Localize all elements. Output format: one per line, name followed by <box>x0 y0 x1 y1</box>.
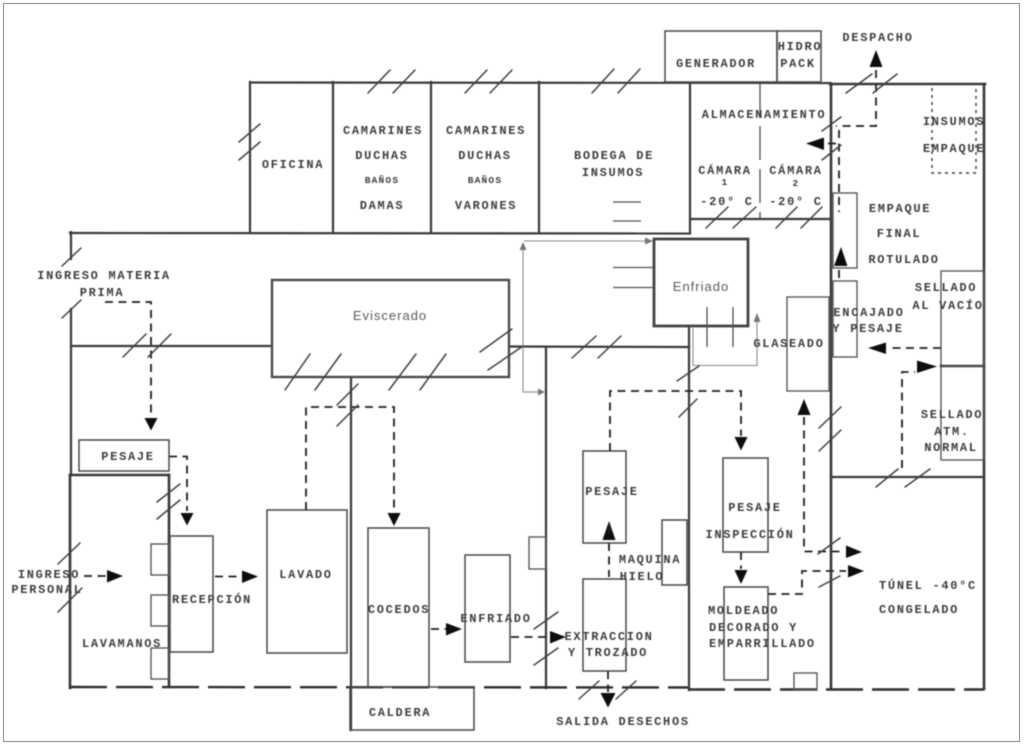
arrow left into CAMARA 2 <box>806 138 824 151</box>
svg-text:-20° C: -20° C <box>700 195 753 209</box>
wall DAMAS/VARONES <box>430 82 432 233</box>
box RECEPCION <box>170 536 213 652</box>
svg-text:INSPECCIÓN: INSPECCIÓN <box>705 527 794 542</box>
flow MAQUINA HIELO to PESAJE 2 dashed <box>608 543 610 577</box>
svg-text:SELLADO: SELLADO <box>921 408 983 422</box>
box INSUMOS EMPAQUE (dotted) <box>932 84 976 173</box>
door marks wall x831 glaseado <box>819 407 841 428</box>
box EXTRACCION Y TROZADO <box>583 579 626 671</box>
svg-text:VARONES: VARONES <box>455 199 517 213</box>
wall VARONES/BODEGA <box>538 82 540 233</box>
flow PESAJE 2 to PESAJE INSPECCION dashed <box>610 391 741 451</box>
arrow right into ENFRIADO <box>446 623 462 636</box>
flow COCEDOS to ENFRIADO dashed <box>431 628 446 630</box>
svg-text:MOLDEADO: MOLDEADO <box>708 604 779 618</box>
svg-text:HIELO: HIELO <box>620 570 665 584</box>
wall vertical x546 <box>545 347 547 688</box>
flow almacen down from despacho dashed <box>836 84 876 126</box>
arrow down salida desechos <box>601 693 616 708</box>
arrow up inside PESAJE 2 <box>603 521 616 540</box>
wall vertical x831 main <box>830 84 833 689</box>
arrow right into lavamanos room <box>107 570 123 583</box>
wall outer left mid segment <box>70 309 72 475</box>
svg-text:Eviscerado: Eviscerado <box>353 308 427 323</box>
svg-text:HIDRO: HIDRO <box>778 40 823 54</box>
svg-text:CONGELADO: CONGELADO <box>879 603 959 617</box>
door marks materia prima entry <box>62 248 81 266</box>
wall bottom of SELLADO AL VACIO (heavy) <box>941 365 984 368</box>
box SELLADO ATM NORMAL <box>941 366 984 460</box>
arrow down into MOLDEADO <box>735 570 748 584</box>
arrow down to RECEPCION <box>181 513 194 526</box>
svg-text:CÁMARA: CÁMARA <box>698 163 751 178</box>
svg-text:INSUMOS: INSUMOS <box>923 115 985 129</box>
svg-text:INSUMOS: INSUMOS <box>582 166 644 180</box>
svg-text:PRIMA: PRIMA <box>80 286 125 300</box>
wall top of TUNEL -40C <box>831 476 984 478</box>
flow into CAMARA 2 dashed <box>826 143 836 145</box>
marks equal lines in BODEGA <box>613 201 641 203</box>
svg-text:AL VACÍO: AL VACÍO <box>912 298 983 313</box>
arrow up into GLASEADO <box>798 399 811 415</box>
svg-text:DESPACHO: DESPACHO <box>842 31 913 45</box>
door marks top wall right wing <box>846 74 872 93</box>
flow LAVADO to COCEDOS dashed <box>306 407 394 512</box>
svg-text:BAÑOS: BAÑOS <box>365 175 400 186</box>
door marks Eviscerado right edge <box>480 329 512 352</box>
door marks Eviscerado bottom left <box>285 354 310 390</box>
svg-text:CAMARINES: CAMARINES <box>343 124 423 138</box>
door marks OFICINA left wall <box>239 124 260 142</box>
flow vertical x839 to empaque box dashed <box>838 130 840 192</box>
box PESAJE 2 <box>583 451 626 543</box>
box PESAJE 1 <box>79 440 169 471</box>
svg-text:LAVAMANOS: LAVAMANOS <box>82 637 162 651</box>
flow PESAJE INSPECCION to MOLDEADO dashed <box>740 552 742 569</box>
door marks wall x169 <box>157 484 180 502</box>
flow EXTRACCION to salida desechos dashed <box>607 671 609 692</box>
svg-text:EMPAQUE: EMPAQUE <box>869 202 931 216</box>
wall left of OFICINA <box>249 82 251 233</box>
door marks wall x831 almacen <box>822 117 841 131</box>
svg-text:GENERADOR: GENERADOR <box>676 57 756 71</box>
svg-text:DAMAS: DAMAS <box>360 199 405 213</box>
thin conveyor path y241 with arrow into Enfriado <box>524 240 645 242</box>
flow SELLADO AL VACIO to ENCAJADO dashed <box>890 347 941 349</box>
wall BODEGA/ALMACENAMIENTO <box>689 83 691 233</box>
conveyor line into Enfriado lower <box>613 287 654 289</box>
conveyor line into Enfriado upper <box>613 267 654 269</box>
svg-text:NORMAL: NORMAL <box>924 441 977 455</box>
flow RECEPCION to LAVADO dashed <box>215 576 242 578</box>
svg-text:EXTRACCION: EXTRACCION <box>564 630 653 644</box>
svg-text:TÚNEL -40°C: TÚNEL -40°C <box>879 578 977 593</box>
svg-text:DECORADO Y: DECORADO Y <box>709 621 798 635</box>
arrow up DESPACHO <box>870 50 883 67</box>
door marks ingreso personal <box>58 543 80 564</box>
box CALDERA <box>350 687 474 730</box>
arrow right into TUNEL lower <box>848 565 864 578</box>
svg-text:EMPARRILLADO: EMPARRILLADO <box>709 637 816 651</box>
svg-text:PESAJE: PESAJE <box>101 450 154 464</box>
thin path near GLASEADO with arrow up <box>693 320 757 366</box>
wall outer left lower segment <box>69 475 72 688</box>
box ENFRIADO small <box>465 555 510 662</box>
arrow up inside empaque box 1 <box>834 247 848 266</box>
svg-text:Y TROZADO: Y TROZADO <box>568 646 648 660</box>
room GENERADOR <box>665 31 777 82</box>
flow inside empaque box 1 dashed <box>838 197 840 212</box>
sink lavamanos 3 <box>151 648 169 679</box>
svg-text:CÁMARA: CÁMARA <box>769 163 822 178</box>
svg-text:COCEDOS: COCEDOS <box>368 603 430 617</box>
svg-text:INGRESO: INGRESO <box>18 568 80 582</box>
box GLASEADO <box>787 297 829 391</box>
arrow right into SELLADO AL VACIO <box>917 361 937 374</box>
flow between empaque boxes dashed <box>838 270 840 280</box>
svg-text:ATM.: ATM. <box>934 425 970 439</box>
wall vertical x351 below Eviscerado <box>350 377 352 730</box>
svg-text:ROTULADO: ROTULADO <box>868 253 939 267</box>
svg-text:ENFRIADO: ENFRIADO <box>460 612 531 626</box>
box small at wall x546 <box>529 537 546 569</box>
svg-text:BAÑOS: BAÑOS <box>468 175 503 186</box>
box ENCAJADO Y PESAJE <box>833 281 857 357</box>
flow TUNEL to SELLADO AL VACIO dashed <box>902 372 915 468</box>
machine Eviscerado <box>272 280 509 377</box>
svg-text:LAVADO: LAVADO <box>279 568 332 582</box>
box LAVADO <box>267 510 347 653</box>
flow ingreso materia prima dashed <box>105 302 151 416</box>
svg-text:SALIDA DESECHOS: SALIDA DESECHOS <box>556 715 690 729</box>
svg-text:DUCHAS: DUCHAS <box>458 149 511 163</box>
svg-text:ENCAJADO: ENCAJADO <box>833 306 904 320</box>
svg-text:SELLADO: SELLADO <box>915 281 977 295</box>
arrow right into TUNEL upper <box>846 546 862 559</box>
wall OFICINA/DAMAS <box>332 82 334 233</box>
door marks Eviscerado bottom mid <box>389 354 416 390</box>
svg-text:PACK: PACK <box>780 57 816 71</box>
svg-text:PESAJE: PESAJE <box>728 501 781 515</box>
box MOLDEADO DECORADO Y EMPARRILLADO <box>724 587 768 680</box>
machine Enfriado <box>654 239 748 326</box>
svg-text:PERSONAL: PERSONAL <box>11 583 82 597</box>
conveyor line below Enfriado left <box>706 307 708 347</box>
svg-text:ALMACENAMIENTO: ALMACENAMIENTO <box>702 108 827 122</box>
flow ENFRIADO to EXTRACCION dashed <box>511 636 550 638</box>
door marks wall y346 left <box>123 334 146 357</box>
sink lavamanos 2 <box>151 595 169 626</box>
wall horizontal y347 right of Eviscerado <box>509 345 689 348</box>
wall bottom boundary left (dashed) <box>70 686 688 689</box>
box PESAJE INSPECCION <box>723 458 768 552</box>
flow MOLDEADO to TUNEL dashed <box>768 571 846 594</box>
wall bottom of camaras <box>690 218 831 220</box>
svg-text:Y PESAJE: Y PESAJE <box>832 322 903 336</box>
svg-text:Enfriado: Enfriado <box>673 279 729 294</box>
box empaque tall 1 <box>833 193 857 268</box>
svg-text:CALDERA: CALDERA <box>369 706 431 720</box>
arrow right into EXTRACCION <box>550 631 566 644</box>
conveyor line below Enfriado right <box>732 307 734 347</box>
door mark wall x831 tunel lower <box>819 576 840 587</box>
svg-text:OFICINA: OFICINA <box>262 158 324 172</box>
wall top of LAVAMANOS room <box>70 474 169 477</box>
wall vertical x984 right outer <box>983 84 986 689</box>
svg-text:MAQUINA: MAQUINA <box>619 553 681 567</box>
svg-text:FINAL: FINAL <box>877 227 922 241</box>
svg-text:-20° C: -20° C <box>769 195 822 209</box>
wall vertical x689 <box>688 326 690 690</box>
arrow down into PESAJE 1 <box>145 418 158 431</box>
wall top of right wing <box>830 83 985 86</box>
svg-text:2: 2 <box>793 178 800 189</box>
box SELLADO AL VACIO <box>941 271 984 366</box>
door marks wall y347 mid <box>572 336 596 358</box>
door mark wall x689 at dashed crossing <box>679 399 697 417</box>
wall horizontal y346 left of Eviscerado <box>71 345 272 347</box>
flow DESPACHO dashed <box>875 70 877 84</box>
room HIDRO PACK <box>777 31 821 82</box>
door marks top wall DAMAS <box>368 70 390 93</box>
arrow down into PESAJE INSPECCION <box>735 437 748 451</box>
door marks salida desechos <box>579 681 599 699</box>
wall bottom boundary right (dashed) <box>688 688 984 690</box>
wall outer left upper segment <box>70 232 72 259</box>
flow ingreso personal dashed <box>84 575 107 577</box>
wall divider CAMARA 1 / CAMARA 2 <box>759 83 761 218</box>
thin conveyor path y392 arrow right into wall <box>523 391 538 393</box>
arrow right into LAVADO <box>242 571 258 584</box>
door mark wall x689 lower <box>677 366 699 381</box>
flow GLASEADO vertical dashed <box>804 417 844 552</box>
sink lavamanos 1 <box>151 544 169 575</box>
arrow left into ENCAJADO Y PESAJE <box>868 343 886 355</box>
arrow down into COCEDOS <box>388 513 401 526</box>
door marks top wall VARONES <box>465 70 487 93</box>
box MAQUINA HIELO <box>662 520 687 585</box>
thin conveyor path x523 with arrow up <box>522 248 524 392</box>
svg-text:EMPAQUE: EMPAQUE <box>923 142 985 156</box>
door marks TUNEL top wall <box>876 469 898 487</box>
svg-text:RECEPCIÓN: RECEPCIÓN <box>172 592 252 607</box>
door mark wall x831 tunel upper <box>818 538 840 554</box>
door marks top wall BODEGA <box>592 69 614 93</box>
box COCEDOS <box>368 528 429 687</box>
svg-text:BODEGA DE: BODEGA DE <box>574 149 654 163</box>
wall bottom of room row <box>70 232 690 235</box>
door marks wall x546 <box>534 612 558 629</box>
svg-text:GLASEADO: GLASEADO <box>753 337 824 351</box>
svg-text:PESAJE: PESAJE <box>585 485 638 499</box>
svg-text:DUCHAS: DUCHAS <box>355 149 408 163</box>
svg-text:INGRESO MATERIA: INGRESO MATERIA <box>37 269 171 283</box>
svg-text:1: 1 <box>722 177 729 188</box>
flow PESAJE 1 to RECEPCION dashed <box>169 457 187 512</box>
box small door bottom right <box>794 673 817 690</box>
wall right of LAVAMANOS room <box>168 475 171 687</box>
door marks wall x351 <box>337 384 358 405</box>
wall top of room row <box>250 81 831 84</box>
svg-text:CAMARINES: CAMARINES <box>446 124 526 138</box>
door marks camara bottom wall <box>706 207 728 228</box>
